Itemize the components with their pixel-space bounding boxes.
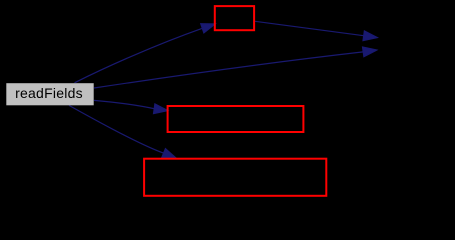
truncated node bottom (red box): [144, 159, 326, 196]
edge readFields->bottom red node: [69, 105, 177, 158]
edge readFields->top red node: [75, 24, 216, 83]
edge readFields->middle red node: [94, 100, 168, 113]
node readFields (current node, grey): [6, 83, 93, 105]
svg-text:readFields: readFields: [15, 85, 83, 101]
truncated node top (red box): [215, 6, 254, 30]
edge readFields->hidden node: [94, 47, 377, 88]
truncated node middle (red box): [168, 106, 304, 132]
edge top red node->hidden node: [255, 21, 378, 40]
